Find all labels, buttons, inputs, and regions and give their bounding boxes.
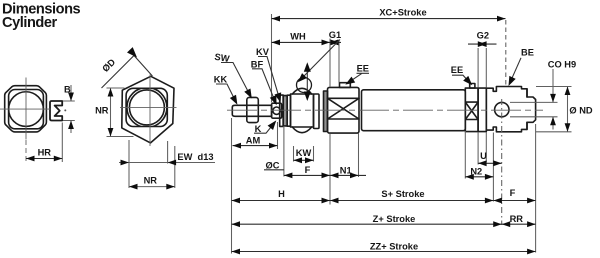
dimension line HR [26,158,62,160]
rod nut [247,97,258,122]
svg-text:Ø ND: Ø ND [569,106,593,116]
dimension line EW d13 [119,162,215,164]
rod end wrench flats [272,103,282,118]
svg-text:CO H9: CO H9 [548,60,576,70]
hex view centerlines [120,106,177,108]
left end view: bore circle [9,92,44,127]
svg-text:S+ Stroke: S+ Stroke [381,189,424,199]
extension line N1 right [358,134,360,178]
dimension line N2 [465,176,493,178]
cylinder tube [362,90,466,131]
svg-text:KV: KV [256,47,270,57]
svg-text:NR: NR [95,105,109,115]
dimension line H / S+Stroke / F row [232,200,536,202]
leader EE left [347,73,369,83]
dimension line NR vertical [110,88,112,137]
rear spacer [478,88,486,132]
leader KV [258,57,280,100]
svg-text:U: U [480,151,487,161]
dimension line N1 [330,174,366,176]
head gray plate [324,91,328,132]
svg-text:Cylinder: Cylinder [2,15,58,31]
svg-text:EW d13: EW d13 [177,152,213,162]
left end view: barrel flat-sided bore [9,90,44,129]
OD leader [102,56,153,89]
front spacer strip [287,95,290,126]
hex view: mounting nut hexagon [122,76,174,143]
leader SW [221,63,250,96]
dimension line F front [284,174,330,176]
front gray seal plate [283,96,287,126]
extension line tube end [464,131,466,179]
dimension line G2 [468,43,497,45]
extension line XC right (dashed) [505,20,507,86]
dimension CO H9 arrow shafts [552,69,554,130]
dimension lines WH and G1 [272,41,342,43]
dimension line XC+Stroke [272,18,506,20]
svg-text:N2: N2 [470,166,482,176]
rear port block [465,88,478,132]
dimension line ZZ+Stroke row [232,251,536,253]
svg-text:BE: BE [521,48,534,58]
piston rod [232,105,271,116]
main axis centerline [227,109,543,111]
svg-text:H: H [278,189,285,199]
hex view: bore circle [129,90,164,125]
rod clevis profile [50,101,62,121]
svg-text:G1: G1 [329,30,341,40]
extension line cap groove [492,133,494,202]
label underline OC [264,169,284,171]
svg-text:Z+ Stroke: Z+ Stroke [373,214,416,224]
extension line HR right / B shared [61,123,63,163]
pin hole center line vertical [501,99,503,225]
dimension line KW [294,159,314,161]
extension lines dim B [63,101,75,121]
extension line rod shoulder [271,14,273,103]
extension lines dim G2 [478,48,486,88]
extension lines dim KW [294,146,314,162]
dimension line ND [567,87,569,132]
dimension line U [478,162,502,164]
svg-text:KK: KK [214,74,228,84]
svg-text:KW: KW [296,148,312,158]
leader KK [216,84,236,103]
svg-text:XC+Stroke: XC+Stroke [379,7,426,17]
front port circle [297,78,312,93]
svg-text:G2: G2 [477,31,489,41]
clevis pin hole [495,102,509,116]
rear cap with groove and end boss [486,87,535,132]
svg-text:EE: EE [451,65,463,75]
extension lines dims EW and NR horizontal [129,140,175,188]
dimension line AM [233,145,278,147]
extension line head front face [329,134,331,205]
extension line rod tip [231,118,233,254]
hex view: chamfer circle (clipped) [127,87,167,127]
svg-text:BF: BF [251,59,264,69]
extension line AM right [277,122,279,149]
svg-text:ØC: ØC [266,160,280,170]
left view centerlines [0,108,51,110]
extension lines dim ND [536,87,572,132]
svg-text:N1: N1 [340,166,352,176]
svg-text:ZZ+ Stroke: ZZ+ Stroke [370,242,418,252]
svg-text:F: F [305,165,311,175]
leader EE right [452,75,471,84]
svg-text:F: F [510,188,516,198]
extension lines dim U [478,132,486,165]
svg-text:HR: HR [38,147,52,157]
extension lines dim NR vertical [107,88,134,137]
svg-text:EE: EE [357,64,369,74]
leader G1 to port circle [300,40,340,81]
svg-text:AM: AM [246,135,261,145]
svg-text:RR: RR [510,214,524,224]
front port boss [340,83,351,88]
retaining plate [314,94,320,129]
svg-text:WH: WH [290,32,306,42]
leader K [254,122,275,134]
left end view: cylinder profile octagon [5,86,47,132]
dimension line Z+Stroke / RR row [232,223,536,225]
hex view: barrel outline [126,88,167,126]
dimension B arrow shafts [70,85,72,133]
leader BF [252,69,276,104]
vertical double arrow at front port [306,64,308,100]
svg-text:NR: NR [144,176,158,186]
leader BE [509,58,521,84]
washer [280,95,284,126]
mounting hex nut side view [291,94,314,127]
svg-text:B: B [64,85,71,95]
arrowheads [26,156,35,162]
extension lines dim CO H9 [510,102,558,116]
front head block [328,87,360,133]
svg-text:K: K [255,124,262,134]
extension line F left / OC leader [283,126,285,177]
dimension line NR horizontal [129,186,175,188]
rear port boss [470,84,475,89]
extension lines dim G1 [330,39,339,88]
extension line cap rear face [535,124,537,253]
